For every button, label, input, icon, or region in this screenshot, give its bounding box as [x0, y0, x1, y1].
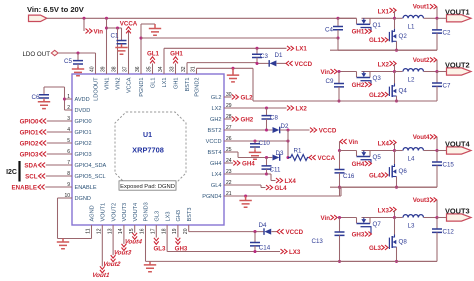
svg-text:GL4: GL4	[369, 172, 382, 179]
svg-text:LX1: LX1	[378, 8, 390, 15]
net label Vin (stage4)	[340, 139, 347, 144]
ground (C5)	[72, 67, 84, 76]
port VOUT1	[437, 17, 447, 19]
wire AVDD/DVDD feed	[44, 86, 65, 88]
inductor L1	[395, 17, 403, 19]
svg-text:33: 33	[170, 66, 176, 72]
wire PGND2 to ground and stage2 return	[196, 68, 198, 74]
svg-text:VCCD: VCCD	[286, 229, 304, 236]
svg-text:40: 40	[90, 66, 96, 72]
capacitor C8 bootstrap 2	[266, 108, 268, 116]
svg-text:I2C: I2C	[6, 169, 17, 176]
svg-text:17: 17	[151, 228, 157, 234]
svg-text:GPIO2: GPIO2	[75, 141, 92, 147]
svg-text:C8: C8	[270, 115, 278, 122]
I2C bus bracket	[18, 161, 20, 182]
svg-text:GPIO1: GPIO1	[20, 129, 39, 136]
capacitor C10	[253, 139, 256, 142]
svg-text:LX1: LX1	[162, 78, 168, 88]
svg-text:Vout4: Vout4	[413, 134, 430, 141]
ground (PGND4)	[239, 196, 251, 207]
svg-text:Vin: Vin	[320, 215, 330, 222]
port VOUT3	[437, 217, 447, 219]
net label Vout3 (bottom)	[123, 225, 125, 244]
svg-text:Vin: 6.5V to 20V: Vin: 6.5V to 20V	[27, 5, 85, 14]
svg-text:BST3: BST3	[187, 208, 193, 222]
ground (C6)	[38, 99, 50, 108]
wire stage1 bottom rail	[338, 49, 437, 51]
wire BST1 row	[186, 63, 188, 74]
svg-text:39: 39	[101, 66, 107, 72]
svg-text:LX2: LX2	[378, 62, 390, 69]
svg-text:19: 19	[172, 228, 178, 234]
svg-text:32: 32	[181, 66, 187, 72]
svg-text:14: 14	[118, 228, 124, 234]
svg-text:GPIO0: GPIO0	[75, 119, 92, 125]
svg-text:VIN1: VIN1	[105, 78, 111, 90]
wire stage bottom return	[330, 49, 437, 51]
wire Q2 source to return	[396, 41, 398, 50]
svg-text:LX4: LX4	[285, 178, 297, 185]
net label LX1	[287, 46, 294, 51]
svg-text:VOUT1: VOUT1	[101, 203, 107, 222]
net label VCCD (D4)	[277, 229, 284, 234]
svg-text:GH4: GH4	[242, 160, 255, 167]
wire Q8 source to return	[396, 247, 398, 261]
node Vin rail / Vin label tap	[82, 17, 85, 20]
svg-text:11: 11	[86, 228, 92, 233]
svg-text:Q6: Q6	[399, 168, 408, 175]
svg-text:GL2: GL2	[241, 94, 254, 101]
net label VCCD (D2)	[310, 128, 317, 133]
svg-text:VCCD: VCCD	[295, 61, 313, 68]
svg-text:GL1: GL1	[151, 78, 157, 89]
inductor L4	[395, 150, 403, 152]
wire VIN1/VIN2 feed	[106, 18, 108, 74]
capacitor C15 output	[436, 151, 438, 163]
port VOUT2	[437, 71, 447, 73]
wire PGND1 stub	[140, 24, 142, 74]
svg-text:D1: D1	[275, 52, 283, 59]
transistor Q2 low-side MOSFET	[391, 30, 393, 42]
svg-text:31: 31	[191, 66, 197, 72]
svg-text:C2: C2	[443, 30, 451, 37]
svg-text:GPIO0: GPIO0	[20, 118, 39, 125]
ground (C1)	[115, 44, 127, 54]
wire LX3 from pin 18	[166, 225, 168, 252]
svg-text:GH3: GH3	[176, 210, 182, 222]
svg-text:L2: L2	[408, 77, 415, 84]
svg-text:C3: C3	[260, 53, 268, 60]
wire stage3 bottom rail	[146, 260, 438, 262]
diode D4	[263, 228, 265, 235]
net label GL4 (pin 22)	[224, 184, 261, 186]
svg-text:Q5: Q5	[373, 154, 382, 161]
svg-text:LX4: LX4	[212, 172, 222, 178]
svg-text:Vout1: Vout1	[91, 272, 111, 279]
svg-text:L3: L3	[408, 223, 415, 230]
svg-text:VOUT4: VOUT4	[133, 203, 139, 222]
wire Q4 source to return	[396, 96, 398, 101]
svg-text:GH3: GH3	[175, 246, 188, 253]
svg-text:GL1: GL1	[369, 37, 382, 44]
svg-text:ENABLE: ENABLE	[12, 184, 37, 191]
capacitor C13 input bypass stage3	[338, 216, 341, 219]
svg-text:GH4: GH4	[210, 161, 222, 167]
svg-text:C5: C5	[64, 58, 72, 65]
svg-text:GL2: GL2	[369, 92, 382, 99]
svg-text:Q3: Q3	[373, 75, 382, 82]
svg-text:C9: C9	[326, 78, 334, 85]
wire AGND	[91, 225, 93, 239]
svg-text:VOUT2: VOUT2	[111, 203, 117, 222]
svg-text:GH1: GH1	[352, 29, 365, 36]
svg-text:ENABLE: ENABLE	[75, 185, 97, 191]
svg-text:VCCD: VCCD	[206, 139, 222, 145]
svg-text:VCCA: VCCA	[127, 77, 133, 93]
svg-text:Q7: Q7	[373, 221, 382, 228]
svg-text:AVDD: AVDD	[75, 97, 90, 103]
svg-text:C12: C12	[443, 229, 455, 236]
ground (DGND/AGND)	[57, 239, 69, 249]
svg-text:GPIO1: GPIO1	[75, 130, 92, 136]
net label VCCD (D1)	[286, 61, 293, 66]
capacitor C5	[77, 53, 79, 61]
svg-text:VCCD: VCCD	[319, 127, 337, 134]
svg-text:18: 18	[161, 228, 167, 234]
svg-text:C4: C4	[325, 26, 333, 33]
net label GH4 (pin 24)	[224, 162, 233, 164]
svg-text:GL1: GL1	[147, 51, 160, 58]
wire VCCD pin 26 row	[224, 140, 288, 142]
svg-text:GL4: GL4	[211, 183, 222, 189]
net label VCCA (pin 37)	[128, 31, 130, 74]
svg-text:LX3: LX3	[289, 249, 301, 256]
svg-text:C6: C6	[32, 94, 40, 101]
svg-text:PGND3: PGND3	[144, 202, 150, 221]
net label Vout1 (bottom)	[101, 225, 103, 266]
svg-text:GL2: GL2	[211, 95, 222, 101]
svg-text:15: 15	[129, 228, 135, 234]
capacitor C6	[43, 87, 45, 94]
capacitor C11 bootstrap 4	[266, 158, 268, 166]
svg-text:GH1: GH1	[174, 78, 180, 90]
ground (PGND2)	[227, 68, 239, 82]
svg-text:SCL: SCL	[25, 173, 38, 180]
wire Vin rail	[47, 17, 357, 19]
svg-text:GPIO5_SCL: GPIO5_SCL	[75, 174, 106, 180]
transistor Q1 high-side MOSFET	[356, 18, 358, 24]
svg-text:13: 13	[107, 228, 113, 234]
svg-text:Vout1: Vout1	[413, 4, 430, 11]
wire BST2 row	[224, 129, 272, 131]
capacitor C4 input bypass stage1	[336, 17, 339, 20]
capacitor C16 input bypass stage4	[339, 151, 341, 170]
svg-text:GH2: GH2	[241, 116, 254, 123]
net label GH2 (pin 28)	[224, 118, 232, 120]
wire stage4 bottom rail	[340, 186, 438, 188]
svg-text:Vout3: Vout3	[413, 197, 430, 204]
net label LX4	[276, 178, 283, 183]
svg-text:GH2: GH2	[210, 117, 222, 123]
svg-text:LX4: LX4	[378, 141, 390, 148]
svg-text:GPIO3: GPIO3	[75, 152, 92, 158]
net label GL2 (pin 30)	[224, 96, 232, 98]
svg-text:D4: D4	[259, 222, 267, 229]
svg-text:VIN2: VIN2	[116, 78, 122, 90]
ground (PGND3) and stage3 return start	[145, 225, 147, 261]
svg-text:GL4: GL4	[275, 185, 288, 192]
svg-text:35: 35	[147, 66, 153, 72]
wire stage bottom return	[330, 186, 437, 188]
resistor R1	[288, 155, 309, 161]
svg-text:Q2: Q2	[399, 33, 408, 40]
wire LX2 row	[224, 107, 287, 109]
svg-text:BST4: BST4	[208, 150, 222, 156]
svg-text:BST1: BST1	[185, 78, 191, 92]
wire PGND4 row to stage4 return	[224, 195, 341, 197]
transistor Q8 low-side MOSFET	[391, 236, 393, 248]
svg-text:L4: L4	[408, 156, 415, 163]
svg-text:VOUT2: VOUT2	[445, 61, 470, 70]
svg-text:Vout2: Vout2	[413, 57, 430, 64]
svg-text:16: 16	[140, 228, 146, 234]
svg-text:Q1: Q1	[373, 22, 382, 29]
svg-text:38: 38	[112, 66, 118, 72]
svg-text:U1: U1	[143, 132, 152, 139]
svg-text:C15: C15	[443, 162, 455, 169]
net label GH3 (pin 19)	[177, 225, 179, 238]
capacitor C9 input bypass stage2	[337, 70, 340, 73]
svg-text:VOUT3: VOUT3	[122, 203, 128, 222]
svg-text:VCCA: VCCA	[318, 155, 336, 162]
transistor Q5 high-side MOSFET	[356, 151, 358, 157]
svg-text:C14: C14	[259, 245, 271, 252]
capacitor C3 bootstrap 1	[255, 47, 258, 50]
ground (C10)	[249, 150, 261, 159]
node Vin rail / VIN1 drop	[105, 17, 108, 20]
svg-text:R1: R1	[294, 148, 302, 155]
svg-text:Q8: Q8	[399, 239, 408, 246]
svg-text:LX2: LX2	[212, 106, 222, 112]
svg-text:L1: L1	[408, 24, 415, 31]
svg-text:GPIO4_SDA: GPIO4_SDA	[75, 163, 107, 169]
capacitor C12 output	[436, 218, 438, 230]
svg-text:VOUT1: VOUT1	[445, 7, 470, 16]
svg-text:Vin: Vin	[349, 139, 359, 146]
transistor Q7 high-side MOSFET	[356, 218, 358, 224]
svg-text:GL3: GL3	[369, 245, 382, 252]
svg-text:C16: C16	[343, 173, 355, 180]
svg-text:GL3: GL3	[153, 246, 166, 253]
capacitor C7 output	[436, 72, 438, 84]
capacitor C14	[253, 230, 256, 233]
svg-text:GH1: GH1	[170, 51, 183, 58]
svg-text:XRP7708: XRP7708	[132, 146, 164, 155]
transistor Q6 low-side MOSFET	[391, 166, 393, 178]
svg-text:PGND1: PGND1	[139, 78, 145, 97]
svg-text:Q4: Q4	[399, 88, 408, 95]
svg-text:SDA: SDA	[24, 162, 38, 169]
diode D3	[273, 155, 280, 161]
port VOUT4	[437, 150, 447, 152]
wire stage bottom return	[330, 260, 437, 262]
net label LX2	[287, 106, 294, 111]
svg-text:LX3: LX3	[165, 212, 171, 222]
wire stage2 bottom rail	[253, 100, 437, 102]
svg-text:GH3: GH3	[352, 231, 365, 238]
wire stage bottom return	[330, 100, 437, 102]
svg-text:GL3: GL3	[155, 211, 161, 222]
wire Q6 source to return	[396, 177, 398, 188]
svg-text:VOUT3: VOUT3	[445, 207, 470, 216]
ground (PGND1)	[149, 24, 161, 35]
svg-text:C11: C11	[270, 166, 281, 173]
wire PGND1 return to stage1	[139, 36, 142, 39]
svg-text:PGND2: PGND2	[195, 78, 201, 97]
svg-text:12: 12	[97, 228, 103, 234]
svg-text:C1: C1	[111, 33, 119, 40]
svg-text:VCCA: VCCA	[120, 21, 138, 28]
svg-text:C10: C10	[259, 140, 271, 147]
svg-text:GPIO3: GPIO3	[20, 151, 39, 158]
svg-text:Exposed Pad: DGND: Exposed Pad: DGND	[120, 184, 175, 190]
svg-text:LX3: LX3	[378, 208, 390, 215]
svg-text:GH2: GH2	[352, 82, 365, 89]
svg-text:DGND: DGND	[75, 196, 91, 202]
inductor L3	[395, 217, 403, 219]
net label Vout4 (bottom)	[134, 225, 136, 233]
svg-text:LX1: LX1	[296, 46, 308, 53]
svg-text:C7: C7	[443, 83, 451, 90]
svg-text:20: 20	[183, 228, 189, 234]
svg-text:D3: D3	[276, 150, 284, 157]
capacitor C1	[121, 28, 123, 40]
svg-text:34: 34	[158, 66, 164, 72]
net label GL3 (pin 17)	[155, 225, 157, 238]
net label VCCA (R1)	[309, 155, 316, 160]
wire LX4 row	[224, 173, 267, 175]
wire BST4 row	[224, 151, 238, 153]
wire BST3 row	[188, 225, 190, 232]
svg-text:37: 37	[123, 66, 129, 72]
wire VCCD vertical node	[287, 130, 289, 158]
capacitor C2 output	[436, 18, 438, 30]
svg-text:36: 36	[135, 66, 141, 72]
svg-text:GPIO2: GPIO2	[20, 140, 39, 147]
svg-text:LDOOUT: LDOOUT	[94, 77, 100, 101]
svg-text:GH4: GH4	[352, 161, 365, 168]
wire LX1 net from pin 34	[163, 48, 165, 74]
wire LDO OUT to pin 40	[58, 52, 95, 54]
svg-text:LDO OUT: LDO OUT	[22, 51, 50, 58]
net label LX3	[281, 249, 288, 254]
wire DGND	[58, 197, 73, 199]
net label Vout2 (bottom)	[112, 225, 114, 255]
net label Vin	[83, 18, 85, 31]
svg-text:Vin: Vin	[94, 28, 104, 35]
inductor L2	[395, 71, 403, 73]
svg-text:DVDD: DVDD	[75, 108, 91, 114]
svg-text:AGND: AGND	[90, 205, 96, 221]
diode D1	[268, 60, 270, 67]
svg-text:LX2: LX2	[296, 105, 308, 112]
svg-text:VOUT4: VOUT4	[445, 140, 471, 149]
svg-text:C13: C13	[312, 238, 324, 245]
svg-text:PGND4: PGND4	[202, 194, 221, 200]
transistor Q4 low-side MOSFET	[391, 85, 393, 97]
svg-text:Vin: Vin	[320, 69, 330, 76]
op-amp U1 XRP7708 controller body	[72, 74, 224, 225]
svg-text:BST2: BST2	[208, 128, 222, 134]
diode D2	[273, 127, 280, 133]
transistor Q3 high-side MOSFET	[356, 72, 358, 78]
